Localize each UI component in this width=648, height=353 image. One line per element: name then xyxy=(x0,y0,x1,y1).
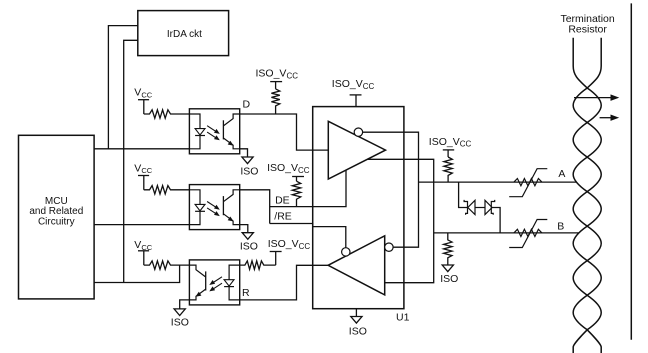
wire DE xyxy=(270,170,346,207)
power ISO_VCC (opto U4 anode) xyxy=(268,238,311,265)
suppressor (protector) on A line xyxy=(509,169,547,197)
svg-text:U1: U1 xyxy=(396,312,410,324)
svg-text:Resistor: Resistor xyxy=(568,23,607,35)
svg-text:DE: DE xyxy=(275,195,290,207)
termination resistor twisted pair strand 1 xyxy=(573,38,601,353)
resistor pull-down B xyxy=(444,233,452,265)
power ISO_VCC (DE pull-up) xyxy=(267,162,310,181)
wire A line xyxy=(419,181,577,183)
TVS diode D1 (left, pointing left) xyxy=(464,200,475,215)
wire MCU receive from opto U4 xyxy=(94,265,180,282)
optocoupler U2 (top) xyxy=(189,109,239,154)
wire IrDA lead 1 to TX net xyxy=(108,26,137,149)
ground ISO (B pull-down) xyxy=(440,265,458,285)
svg-text:D: D xyxy=(243,99,251,111)
power ISO_VCC (D pull-up) xyxy=(256,68,299,89)
suppressor (protector) on B line xyxy=(509,220,547,248)
wire MCU to opto U3 LED cathode xyxy=(94,224,189,226)
wire TVS to B xyxy=(491,208,500,233)
power VCC (opto U2) xyxy=(134,87,152,114)
svg-text:Circuitry: Circuitry xyxy=(38,217,75,228)
driver D1 triangle xyxy=(328,121,385,179)
wire MCU to opto U2 LED cathode xyxy=(94,148,189,150)
svg-text:ISO: ISO xyxy=(440,273,458,285)
wire IrDA lead 2 to RX net xyxy=(124,40,138,282)
IrDA ckt block xyxy=(138,11,229,56)
resistor (ISO_VCC to opto U4 LED anode) xyxy=(240,261,276,269)
wire R (receiver output to opto U4 LED cathode) xyxy=(240,265,328,300)
svg-text:A: A xyxy=(558,168,565,180)
power VCC (opto U4) xyxy=(134,239,152,265)
wire D (opto U2 collector to driver input) xyxy=(240,114,329,150)
power VCC (opto U3) xyxy=(134,162,152,190)
svg-text:IrDA ckt: IrDA ckt xyxy=(167,29,202,40)
svg-text:/RE: /RE xyxy=(274,211,292,223)
wire B line xyxy=(434,232,579,234)
svg-text:ISO: ISO xyxy=(240,241,258,253)
signal arrow 2 xyxy=(600,115,618,120)
wire enable tie (driver bubble to receiver bubble) xyxy=(363,132,419,247)
termination resistor twisted pair strand 2 xyxy=(573,38,601,353)
wire between TVS diodes xyxy=(475,207,485,209)
power ISO_VCC (A pull-up) xyxy=(429,136,472,157)
TVS diode D2 (right, pointing right) xyxy=(485,200,495,215)
receiver enable bubble (right) xyxy=(385,243,393,251)
optocoupler U4 (bottom, mirrored) xyxy=(189,260,239,305)
resistor (VCC to opto U3) xyxy=(144,186,190,194)
transceiver U1 box xyxy=(313,107,404,309)
ground ISO (opto U2 emitter) xyxy=(240,149,259,178)
resistor pull-up A xyxy=(444,157,452,182)
optocoupler U3 (middle) xyxy=(189,185,239,230)
bus line (right border) xyxy=(630,3,632,339)
resistor (VCC to opto U2) xyxy=(144,110,190,118)
signal arrow 1 xyxy=(574,95,618,100)
ground ISO (opto U4 emitter) xyxy=(171,300,190,329)
ground ISO (opto U3 emitter) xyxy=(240,225,258,253)
resistor pull-up DE xyxy=(292,181,300,206)
svg-text:ISO: ISO xyxy=(240,165,258,177)
wire opto U3 collector to enable node xyxy=(240,190,270,224)
receiver enable bubble (top) xyxy=(342,248,350,256)
power ISO_VCC (U1) xyxy=(332,78,375,106)
receiver R1 triangle xyxy=(328,236,385,295)
wire A to TVS xyxy=(459,182,468,207)
svg-text:ISO: ISO xyxy=(349,326,367,338)
termination resistor label xyxy=(560,13,614,35)
wire /RE xyxy=(270,224,346,248)
resistor (VCC to opto U4) xyxy=(144,261,190,269)
ground ISO (U1) xyxy=(349,309,367,338)
driver enable bubble xyxy=(354,128,362,136)
svg-text:ISO: ISO xyxy=(171,317,189,329)
MCU and Related Circuitry block xyxy=(19,135,95,299)
svg-text:R: R xyxy=(242,287,250,299)
svg-text:B: B xyxy=(557,221,564,233)
wire driver output / receiver input bus stub xyxy=(367,159,433,282)
resistor pull-up D xyxy=(271,89,279,114)
